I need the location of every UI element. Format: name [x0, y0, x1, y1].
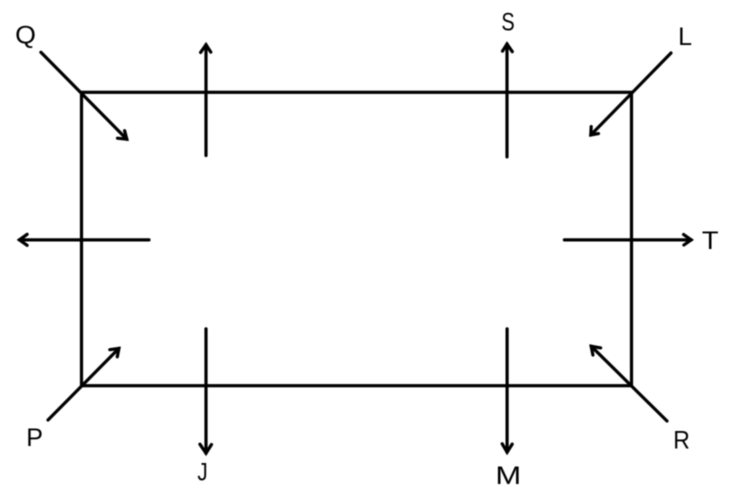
svg-text:Q: Q — [15, 21, 36, 49]
svg-text:M: M — [495, 462, 521, 490]
rectangle body — [82, 92, 632, 385]
svg-text:S: S — [501, 9, 514, 37]
svg-text:T: T — [702, 227, 719, 255]
svg-text:P: P — [26, 424, 43, 452]
svg-text:R: R — [673, 426, 690, 454]
arrow J (bottom, down) — [200, 329, 212, 453]
arrow S (top, up) — [503, 44, 513, 157]
arrow M (bottom, down) — [502, 329, 512, 452]
arrow up unlabeled (top, x=206) — [201, 45, 211, 156]
svg-text:J: J — [197, 458, 207, 486]
arrow P (bottom-left, into rectangle) — [48, 348, 119, 420]
arrow left unlabeled (left side, outward) — [19, 234, 149, 245]
arrow R (bottom-right, into rectangle) — [591, 346, 667, 421]
arrow T (right side, outward) — [564, 235, 691, 246]
arrow L (top-right, into rectangle) — [591, 53, 671, 135]
arrow Q (top-left, into rectangle) — [41, 52, 127, 139]
svg-text:L: L — [678, 23, 692, 51]
